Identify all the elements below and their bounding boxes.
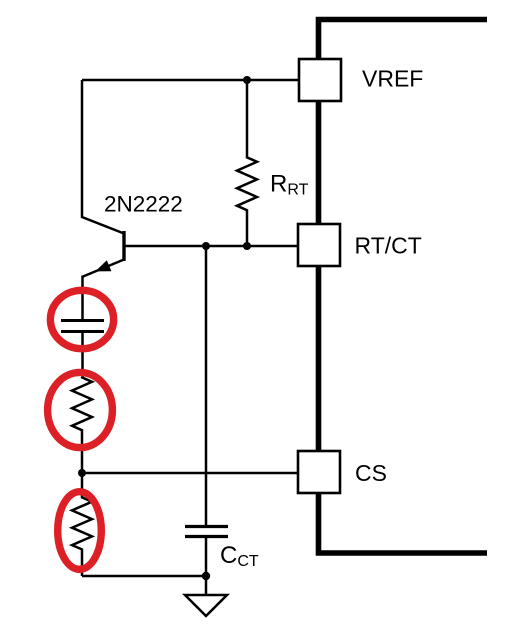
- wire ground rail (bottom): [82, 575, 206, 578]
- red highlight circle around lower resistor: [58, 492, 102, 570]
- svg-text:RRT: RRT: [270, 171, 309, 199]
- svg-text:2N2222: 2N2222: [104, 192, 183, 217]
- red highlight circle around capacitor: [50, 290, 113, 348]
- capacitor (highlighted, unnamed): [61, 321, 104, 332]
- resistor (highlighted, upper of divider): [72, 377, 92, 473]
- ground: [185, 576, 227, 616]
- wire CS node (divider tap to CS pin): [82, 472, 300, 475]
- resistor (highlighted, lower of divider): [72, 473, 92, 576]
- junction node RT/CT - RRT bottom: [243, 242, 251, 250]
- capacitor CCT: [185, 246, 228, 576]
- transistor Q1 2N2222: [82, 80, 124, 277]
- junction node ground: [202, 572, 210, 580]
- IC boundary rail (thick bracket): [319, 20, 488, 554]
- svg-text:CCT: CCT: [220, 542, 259, 570]
- junction node divider tap / CS: [78, 469, 86, 477]
- pin VREF: [299, 59, 341, 101]
- wire RT/CT node (base to RT/CT pin): [124, 245, 300, 248]
- wire VREF node (collector to VREF pin): [82, 79, 300, 82]
- resistor RRT: [237, 80, 257, 246]
- wire emitter lead down: [81, 276, 84, 321]
- svg-text:VREF: VREF: [362, 66, 423, 92]
- junction node RT/CT - CCT branch: [202, 242, 210, 250]
- red highlight circle around upper resistor: [48, 372, 113, 447]
- junction node at VREF/RRT: [243, 76, 251, 84]
- pin RT/CT: [298, 224, 340, 266]
- wire capacitor to resistor: [81, 332, 84, 378]
- svg-text:CS: CS: [355, 460, 387, 486]
- svg-text:RT/CT: RT/CT: [355, 233, 422, 259]
- pin CS: [298, 451, 340, 493]
